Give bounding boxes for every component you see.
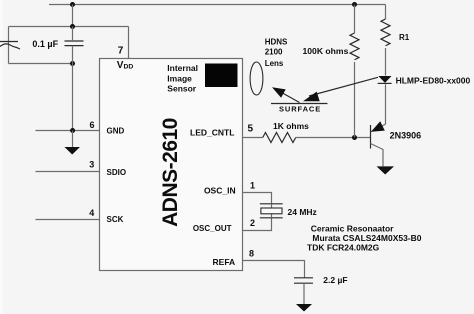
resonator X1 body box: [261, 208, 282, 214]
svg-text:3: 3: [89, 160, 94, 170]
node junction base / 100K: [352, 135, 357, 140]
svg-text:R1: R1: [399, 33, 410, 42]
wire pin5 to resistor: [243, 137, 263, 139]
wire pin7 drop: [128, 27, 130, 59]
resistor R1: [381, 19, 390, 46]
resistor 1K ohms: [263, 133, 296, 143]
svg-text:Ceramic Resonaator: Ceramic Resonaator: [311, 224, 394, 234]
wire OSC_OUT: [243, 218, 272, 231]
resonator X1 center lead: [271, 204, 273, 218]
transistor emitter arrow (PNP): [371, 121, 385, 132]
wire 100K lower lead to base node: [354, 62, 356, 138]
svg-text:0.1 µF: 0.1 µF: [32, 39, 58, 49]
LED cathode bar: [378, 82, 392, 84]
svg-text:1: 1: [250, 181, 255, 191]
wire GND pin 6: [36, 130, 100, 132]
svg-text:100K ohms: 100K ohms: [303, 46, 349, 56]
arrowhead ray to surface: [303, 92, 320, 102]
wire cap-loop left leg (off-page): [8, 27, 10, 64]
LED D1 HLMP-ED80 triangle: [378, 76, 391, 83]
svg-text:2.2 µF: 2.2 µF: [323, 275, 347, 285]
wire R1 to LED anode: [385, 48, 387, 76]
svg-text:5: 5: [248, 123, 254, 134]
svg-text:OSC_IN: OSC_IN: [204, 186, 236, 196]
wire cap-loop bottom horizontal: [9, 63, 73, 65]
wire LED cathode to emitter: [385, 84, 387, 124]
svg-text:REFA: REFA: [213, 257, 236, 267]
svg-text:Sensor: Sensor: [167, 84, 197, 94]
svg-text:8: 8: [249, 249, 254, 259]
wire VDD top rail: [49, 4, 386, 6]
off-page break squiggle: [0, 41, 18, 43]
wire resistor to transistor base: [296, 137, 371, 139]
wire REFA: [243, 261, 305, 278]
svg-text:SCK: SCK: [107, 215, 124, 224]
wire SCK pin 4: [36, 219, 100, 221]
wire ground stem: [72, 131, 74, 148]
svg-text:7: 7: [118, 45, 124, 56]
internal image sensor black square: [205, 64, 238, 88]
svg-text:SURFACE: SURFACE: [279, 105, 321, 114]
svg-text:2N3906: 2N3906: [390, 131, 422, 141]
IC U1 ADNS-2610 body: [100, 59, 243, 271]
node junction GND: [70, 128, 75, 133]
svg-text:1K ohms: 1K ohms: [273, 121, 309, 131]
svg-text:2100: 2100: [265, 48, 283, 57]
svg-text:4: 4: [89, 208, 94, 218]
wire R1 upper lead: [385, 5, 387, 20]
wire cap-loop top horizontal to pin7: [9, 26, 129, 28]
capacitor C2 2.2uF plates: [294, 278, 313, 283]
svg-text:SDIO: SDIO: [107, 168, 127, 177]
wire SDIO pin 3: [36, 171, 100, 173]
light ray surface to lens: [278, 91, 300, 103]
svg-text:ADNS-2610: ADNS-2610: [159, 118, 182, 227]
wire cap leads: [72, 27, 74, 64]
node junction top rail / 100K branch: [352, 2, 357, 7]
transistor collector lead: [371, 144, 384, 167]
svg-text:HLMP-ED80-xx000: HLMP-ED80-xx000: [396, 75, 471, 85]
resonator X1 plates: [260, 204, 283, 218]
node junction top rail / bypass cap branch: [70, 2, 75, 7]
svg-text:OSC_OUT: OSC_OUT: [193, 224, 232, 233]
svg-text:24 MHz: 24 MHz: [288, 207, 317, 217]
node junction cap bottom: [70, 61, 75, 66]
svg-text:HDNS: HDNS: [265, 38, 288, 47]
wire cap bottom node down to GND node: [72, 64, 74, 131]
surface line: [271, 103, 328, 105]
transistor Q1 2N3906 emitter lead: [371, 124, 386, 132]
ground symbol (REFA cap): [296, 304, 312, 312]
svg-text:GND: GND: [107, 127, 125, 136]
svg-text:6: 6: [89, 120, 94, 130]
wire cap to ground: [303, 283, 305, 304]
resistor 100K ohms: [350, 33, 359, 60]
svg-text:Lens: Lens: [265, 59, 284, 68]
svg-text:2: 2: [250, 218, 255, 228]
lens HDNS-2100 ellipse: [250, 62, 263, 95]
wire rail to cap top node: [72, 5, 74, 27]
svg-text:LED_CNTL: LED_CNTL: [190, 128, 234, 138]
ground symbol (collector): [377, 166, 395, 174]
wire OSC_IN: [243, 193, 272, 204]
svg-text:TDK FCR24.0M2G: TDK FCR24.0M2G: [307, 242, 380, 252]
wire 100K upper lead: [354, 5, 356, 34]
arrowhead ray to lens: [272, 87, 286, 98]
ground symbol (pin 6): [65, 147, 81, 155]
light ray LED to surface: [309, 77, 378, 96]
svg-text:Image: Image: [167, 73, 192, 83]
transistor base bar: [370, 125, 372, 149]
svg-text:Internal: Internal: [167, 63, 198, 73]
node junction cap top: [70, 24, 75, 29]
capacitor C 0.1uF plates: [65, 41, 84, 46]
